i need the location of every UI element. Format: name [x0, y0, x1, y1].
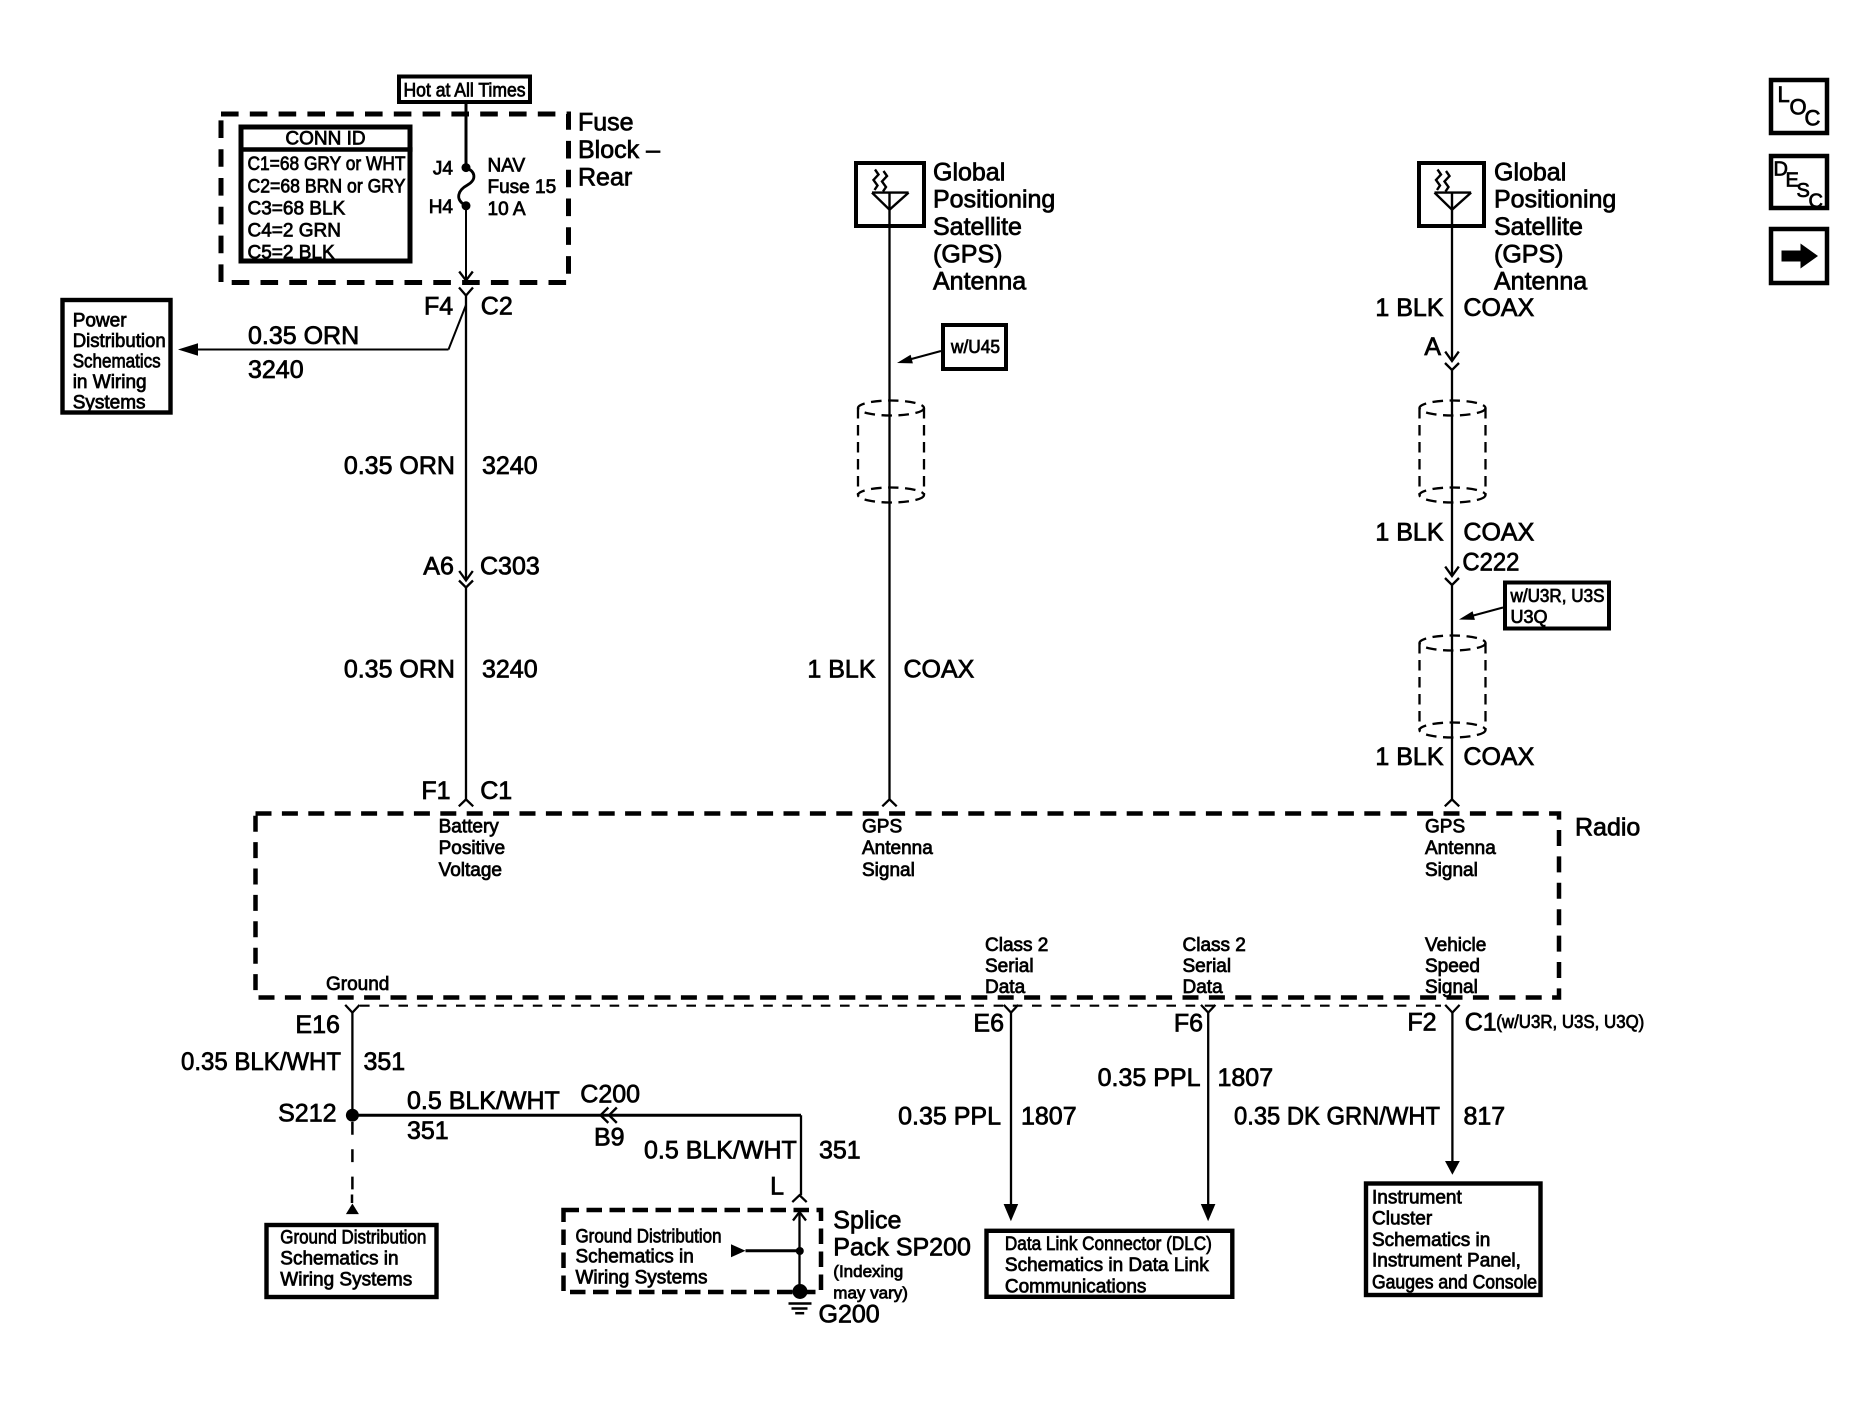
splice pack internal up arrow	[793, 1212, 806, 1221]
svg-text:w/U3R, U3S: w/U3R, U3S	[1510, 586, 1605, 606]
wire label 1 BLK COAX (right middle)	[1375, 519, 1534, 547]
wire fuse output to fuse block edge	[459, 206, 473, 281]
component name Radio	[1575, 814, 1640, 842]
wire GPS antenna coax (left)	[888, 228, 890, 799]
pin A label	[1424, 333, 1441, 361]
svg-text:Rear: Rear	[578, 163, 632, 191]
svg-text:COAX: COAX	[1463, 519, 1534, 547]
connector C222 label	[1462, 549, 1519, 577]
svg-text:Serial: Serial	[985, 956, 1034, 977]
svg-text:B9: B9	[594, 1123, 625, 1151]
radio bottom connector C1 dashed pin line	[360, 1005, 1441, 1007]
svg-text:Communications: Communications	[1005, 1277, 1147, 1298]
ground G200 terminal dot	[793, 1284, 808, 1299]
pin F2 label	[1407, 1009, 1436, 1037]
svg-text:C1: C1	[1465, 1009, 1497, 1037]
svg-text:Instrument Panel,: Instrument Panel,	[1372, 1250, 1521, 1271]
svg-text:Data Link Connector (DLC): Data Link Connector (DLC)	[1005, 1234, 1212, 1255]
svg-text:F6: F6	[1174, 1010, 1203, 1038]
svg-text:Class 2: Class 2	[985, 935, 1048, 956]
svg-text:C4=2 GRN: C4=2 GRN	[248, 221, 341, 242]
svg-text:Schematics in: Schematics in	[1372, 1230, 1490, 1251]
svg-text:Antenna: Antenna	[933, 268, 1026, 296]
svg-text:Ground Distribution: Ground Distribution	[576, 1226, 722, 1247]
svg-text:L: L	[1778, 82, 1790, 107]
svg-text:Gauges and Console: Gauges and Console	[1372, 1272, 1537, 1293]
pin F6 label	[1174, 1010, 1203, 1038]
svg-text:Global: Global	[1494, 158, 1566, 186]
svg-text:Antenna: Antenna	[1494, 268, 1587, 296]
svg-text:COAX: COAX	[904, 655, 975, 683]
radio GPS antenna signal pin (right) female symbol	[1445, 799, 1459, 806]
wire label 0.35 PPL 1807 (E6)	[898, 1103, 1076, 1131]
node H4	[462, 201, 471, 210]
wire right coax segment 1	[1451, 228, 1453, 361]
svg-text:C5=2 BLK: C5=2 BLK	[248, 242, 335, 263]
svg-text:Schematics: Schematics	[73, 352, 161, 373]
wire battery feed segment C303 to radio	[465, 588, 467, 800]
svg-text:351: 351	[364, 1048, 406, 1076]
connector C200 inline double chevron	[601, 1108, 617, 1123]
svg-text:Speed: Speed	[1425, 956, 1480, 977]
reference arrowhead at ground distribution box	[346, 1204, 359, 1215]
svg-text:Voltage: Voltage	[439, 860, 502, 881]
pointer arrow from w/U45 box to wire	[897, 351, 941, 363]
svg-text:A: A	[1424, 333, 1441, 361]
svg-text:3240: 3240	[482, 655, 538, 683]
svg-text:351: 351	[819, 1137, 861, 1165]
radio internal label GPS Antenna Signal (left)	[862, 817, 933, 881]
svg-text:Fuse: Fuse	[578, 109, 634, 137]
wire E6 to DLC	[1010, 1013, 1012, 1205]
pin E16 label	[295, 1011, 339, 1039]
svg-text:Signal: Signal	[862, 860, 915, 881]
svg-text:Positioning: Positioning	[1494, 186, 1616, 214]
radio internal label Battery Positive Voltage	[439, 817, 506, 881]
svg-text:Distribution: Distribution	[73, 331, 166, 352]
svg-text:Positioning: Positioning	[933, 186, 1055, 214]
splice pack internal reference text Ground Distribution	[576, 1226, 722, 1288]
wire battery feed from Hot at All Times into fuse block	[465, 102, 468, 167]
node splice S212	[346, 1109, 359, 1122]
radio internal label GPS Antenna Signal (right)	[1425, 817, 1496, 881]
svg-text:Fuse 15: Fuse 15	[488, 177, 557, 198]
pin E6 label	[973, 1010, 1004, 1038]
svg-text:Schematics in: Schematics in	[280, 1249, 398, 1270]
wire label 1 BLK COAX (right lower)	[1375, 743, 1534, 771]
wire label 0.35 ORN 3240 (lower)	[344, 655, 538, 683]
fuse name NAV Fuse 15 10 A	[488, 155, 557, 220]
svg-text:Power: Power	[73, 311, 128, 332]
wire label 0.35 PPL 1807 (F6)	[1098, 1064, 1273, 1092]
reference box Data Link Connector DLC	[987, 1231, 1233, 1298]
svg-text:Battery: Battery	[439, 817, 500, 838]
wire right coax segment 3	[1451, 585, 1453, 799]
connector C2 pin F4 female symbol	[459, 288, 473, 296]
wire label 0.5 BLK/WHT 351 (right segment)	[644, 1137, 861, 1165]
svg-text:J4: J4	[433, 159, 454, 180]
reference box Power Distribution Schematics in Wiring Systems	[63, 300, 171, 414]
svg-text:817: 817	[1464, 1102, 1506, 1130]
svg-text:3240: 3240	[482, 452, 538, 480]
label Hot at All Times	[399, 77, 530, 103]
svg-text:0.35 PPL: 0.35 PPL	[1098, 1064, 1201, 1092]
svg-text:Satellite: Satellite	[1494, 213, 1583, 241]
node junction inside splice pack	[796, 1247, 804, 1255]
CONN ID table	[239, 127, 413, 263]
wire right coax segment 2	[1451, 370, 1453, 576]
svg-text:Wiring Systems: Wiring Systems	[280, 1269, 412, 1290]
wire label 0.35 ORN 3240 (branch)	[248, 322, 359, 384]
reference pointer inside splice pack	[731, 1244, 800, 1257]
svg-text:C303: C303	[480, 553, 540, 581]
svg-text:Schematics in Data Link: Schematics in Data Link	[1005, 1255, 1209, 1276]
svg-text:Wiring Systems: Wiring Systems	[576, 1267, 708, 1288]
svg-text:C2: C2	[481, 292, 513, 320]
reference box Instrument Cluster Schematics	[1366, 1184, 1541, 1296]
GPS antenna (right) component box	[1419, 163, 1484, 228]
node J4	[462, 163, 471, 172]
dashed reference drop from S212	[351, 1122, 354, 1203]
svg-text:Positive: Positive	[439, 838, 506, 859]
svg-text:Instrument: Instrument	[1372, 1188, 1462, 1209]
pin B9 label	[594, 1123, 625, 1151]
pin J4 label	[433, 159, 454, 180]
svg-text:COAX: COAX	[1463, 743, 1534, 771]
svg-text:S212: S212	[278, 1100, 336, 1128]
svg-text:Pack SP200: Pack SP200	[833, 1234, 971, 1262]
radio pin E6 female symbol	[1004, 1005, 1018, 1013]
splice pack name	[833, 1207, 971, 1303]
arrowhead E6 to DLC	[1004, 1204, 1019, 1221]
svg-text:C200: C200	[580, 1080, 640, 1108]
svg-text:1807: 1807	[1218, 1064, 1274, 1092]
svg-text:Satellite: Satellite	[933, 213, 1022, 241]
pin L label	[770, 1172, 784, 1200]
svg-text:0.35 PPL: 0.35 PPL	[898, 1103, 1001, 1131]
svg-text:Global: Global	[933, 158, 1005, 186]
radio internal label Ground	[326, 974, 389, 995]
pin H4 label	[429, 197, 454, 218]
radio pin E16 female symbol	[345, 1005, 359, 1013]
splice pack SP200 dashed outline	[564, 1210, 822, 1292]
GPS antenna (right) name	[1494, 158, 1616, 295]
svg-text:U3Q: U3Q	[1511, 607, 1548, 627]
svg-text:C2=68 BRN or GRY: C2=68 BRN or GRY	[248, 176, 406, 197]
svg-text:C3=68 BLK: C3=68 BLK	[248, 198, 346, 219]
svg-text:Systems: Systems	[73, 393, 146, 414]
svg-text:Ground Distribution: Ground Distribution	[280, 1227, 426, 1248]
connector C200 label	[580, 1080, 640, 1108]
wire branch to power distribution reference	[182, 305, 466, 350]
svg-text:A6: A6	[423, 553, 454, 581]
wire S212 to C200	[352, 1114, 801, 1117]
svg-text:Hot at All Times: Hot at All Times	[404, 81, 526, 102]
svg-text:Signal: Signal	[1425, 977, 1478, 998]
svg-text:C222: C222	[1462, 549, 1519, 577]
svg-text:Antenna: Antenna	[1425, 838, 1496, 859]
svg-text:CONN ID: CONN ID	[285, 129, 365, 150]
option box w/U3R U3S U3Q	[1505, 583, 1609, 629]
svg-text:E6: E6	[973, 1010, 1004, 1038]
inline connector at pin A symbol	[1445, 352, 1459, 370]
svg-text:0.5 BLK/WHT: 0.5 BLK/WHT	[644, 1137, 797, 1165]
svg-text:NAV: NAV	[488, 155, 526, 176]
splice S212 label	[278, 1100, 336, 1128]
svg-text:GPS: GPS	[1425, 817, 1465, 838]
svg-text:Antenna: Antenna	[862, 838, 933, 859]
svg-text:Data: Data	[1183, 977, 1224, 998]
svg-text:0.35 ORN: 0.35 ORN	[344, 452, 455, 480]
radio internal label Class 2 Serial Data (F6)	[1183, 935, 1246, 998]
svg-text:(GPS): (GPS)	[1494, 240, 1563, 268]
svg-text:C: C	[1809, 191, 1823, 213]
radio internal label Vehicle Speed Signal	[1425, 935, 1486, 998]
radio GPS antenna signal pin (left) female symbol	[882, 799, 896, 806]
wire label 0.35 ORN 3240 (upper)	[344, 452, 538, 480]
radio pin F2 female symbol	[1445, 1005, 1459, 1013]
svg-text:H4: H4	[429, 197, 454, 218]
svg-text:C1=68 GRY or WHT: C1=68 GRY or WHT	[248, 154, 406, 175]
svg-text:Signal: Signal	[1425, 860, 1478, 881]
radio component dashed outline	[256, 814, 1560, 998]
svg-text:1 BLK: 1 BLK	[1375, 519, 1443, 547]
svg-text:(Indexing: (Indexing	[833, 1262, 903, 1281]
wire battery feed segment C2 to C303	[465, 296, 467, 580]
svg-text:1 BLK: 1 BLK	[807, 655, 875, 683]
svg-text:GPS: GPS	[862, 817, 902, 838]
wire C200 down to splice pack	[800, 1115, 802, 1195]
coax shield symbol (left)	[858, 401, 924, 503]
svg-text:F4: F4	[424, 292, 453, 320]
svg-text:Serial: Serial	[1183, 956, 1232, 977]
svg-text:Vehicle: Vehicle	[1425, 935, 1486, 956]
svg-text:Data: Data	[985, 977, 1026, 998]
svg-text:L: L	[770, 1172, 784, 1200]
coax shield symbol (right upper)	[1420, 401, 1486, 503]
option box w/U45	[943, 325, 1006, 369]
forward arrow navigation box	[1771, 229, 1827, 283]
svg-text:0.35 ORN: 0.35 ORN	[248, 322, 359, 350]
wire label 1 BLK COAX (right upper)	[1375, 294, 1534, 322]
wire F2 to instrument cluster	[1451, 1013, 1453, 1162]
GPS antenna (left) component box	[856, 163, 924, 228]
svg-text:Schematics in: Schematics in	[576, 1247, 694, 1268]
svg-text:w/U45: w/U45	[950, 337, 1000, 357]
connector C303 inline symbol	[459, 571, 473, 588]
svg-text:may vary): may vary)	[833, 1283, 908, 1302]
wire inside splice pack to G200	[798, 1213, 800, 1292]
svg-text:10 A: 10 A	[488, 199, 526, 220]
wire label 1 BLK COAX (left)	[807, 655, 974, 683]
radio connector C1 pin F1 labels	[421, 777, 512, 805]
fuse F15 NAV 10A element	[459, 168, 474, 205]
radio pin F6 female symbol	[1201, 1005, 1215, 1013]
component name Fuse Block - Rear	[578, 109, 660, 192]
svg-text:Splice: Splice	[833, 1207, 901, 1235]
wire ground E16 to S212	[351, 1013, 353, 1116]
svg-text:Block –: Block –	[578, 136, 660, 164]
svg-text:1 BLK: 1 BLK	[1375, 294, 1443, 322]
svg-text:0.35 BLK/WHT: 0.35 BLK/WHT	[181, 1048, 341, 1076]
ground G200 label	[819, 1300, 880, 1328]
svg-text:F1: F1	[421, 777, 450, 805]
coax shield symbol (right lower)	[1420, 636, 1486, 738]
svg-text:Cluster: Cluster	[1372, 1209, 1433, 1230]
pin F4 label	[424, 292, 453, 320]
arrowhead F6 to DLC	[1201, 1204, 1216, 1221]
svg-text:Radio: Radio	[1575, 814, 1640, 842]
wire label 0.35 DK GRN/WHT 817	[1234, 1102, 1505, 1130]
wire label 0.35 BLK/WHT 351	[181, 1048, 405, 1076]
arrowhead to power distribution box	[178, 343, 198, 356]
svg-text:0.35 ORN: 0.35 ORN	[344, 655, 455, 683]
pointer arrow from w/U3R box to wire	[1459, 608, 1503, 620]
radio internal label Class 2 Serial Data (E6)	[985, 935, 1048, 998]
radio bottom connector C1 label	[1465, 1009, 1645, 1037]
LOC navigation box	[1771, 80, 1827, 133]
svg-text:1 BLK: 1 BLK	[1375, 743, 1443, 771]
svg-text:0.35 DK GRN/WHT: 0.35 DK GRN/WHT	[1234, 1102, 1440, 1130]
svg-text:in Wiring: in Wiring	[73, 372, 147, 393]
svg-text:351: 351	[407, 1117, 449, 1145]
reference box Ground Distribution Schematics in Wiring Systems (left)	[267, 1225, 437, 1297]
splice pack pin L female symbol	[792, 1195, 806, 1202]
radio pin F1 female symbol	[459, 799, 473, 806]
svg-text:1807: 1807	[1021, 1103, 1077, 1131]
svg-text:E16: E16	[295, 1011, 339, 1039]
ground symbol G200	[789, 1304, 812, 1314]
GPS antenna (left) name	[933, 158, 1055, 295]
svg-text:Ground: Ground	[326, 974, 389, 995]
svg-text:F2: F2	[1407, 1009, 1436, 1037]
svg-text:COAX: COAX	[1463, 294, 1534, 322]
wire F6 to DLC	[1207, 1013, 1209, 1205]
fuse block dashed outline	[221, 114, 569, 283]
arrowhead F2 to instrument cluster	[1445, 1161, 1460, 1175]
svg-text:0.5 BLK/WHT: 0.5 BLK/WHT	[407, 1087, 560, 1115]
connector C222 inline symbol	[1445, 567, 1459, 585]
connector C303 pin A6 labels	[423, 553, 539, 581]
connector C2 label	[481, 292, 513, 320]
svg-text:G200: G200	[819, 1300, 880, 1328]
svg-text:Class 2: Class 2	[1183, 935, 1246, 956]
svg-text:C: C	[1805, 106, 1821, 131]
svg-text:(GPS): (GPS)	[933, 240, 1002, 268]
DESC navigation box	[1771, 156, 1827, 213]
svg-text:(w/U3R, U3S, U3Q): (w/U3R, U3S, U3Q)	[1496, 1012, 1644, 1032]
svg-text:C1: C1	[480, 777, 512, 805]
svg-text:3240: 3240	[248, 356, 304, 384]
wire label 0.5 BLK/WHT 351 (left of C200)	[407, 1087, 560, 1145]
